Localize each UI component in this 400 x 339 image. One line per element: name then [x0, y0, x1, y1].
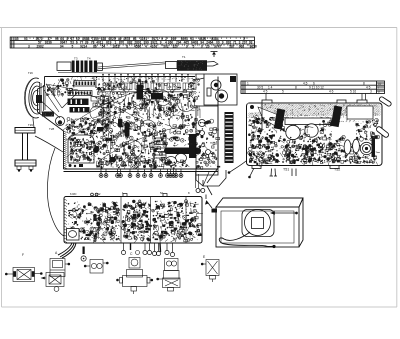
svg-text:T1: T1: [182, 55, 186, 59]
white wedge: [258, 107, 296, 136]
lower PCB top labels: [70, 191, 190, 196]
unit G: [84, 260, 108, 274]
lower PCB top edge bumps: [91, 193, 167, 196]
svg-text:0: 0: [201, 44, 203, 48]
svg-text:F: F: [22, 253, 24, 257]
lead with arrow: [206, 195, 212, 209]
svg-text:1: 1: [247, 82, 249, 86]
chassis components center: [108, 118, 170, 171]
dark pill 2: [125, 122, 130, 137]
inter-board wires: [196, 172, 210, 188]
lower PCB white pocket: [67, 229, 80, 241]
thick leads below PCB: [131, 244, 161, 253]
svg-text:8: 8: [363, 82, 365, 86]
svg-text:4 5: 4 5: [263, 90, 268, 94]
dark block pulley corner: [230, 76, 236, 82]
svg-text:3: 3: [370, 90, 372, 94]
svg-text:9214: 9214: [80, 44, 87, 48]
coil pack stripes A: [74, 81, 96, 87]
right side panel: [196, 106, 218, 183]
svg-text:9: 9: [222, 41, 224, 45]
lower PCB texture mid dense: [122, 200, 153, 244]
long wire loop arc: [47, 148, 64, 236]
speaker cabinet outline: [216, 198, 303, 247]
svg-text:4,5: 4,5: [303, 82, 308, 86]
pulley T28: [56, 117, 65, 126]
svg-text:1 4: 1 4: [268, 86, 273, 90]
bracket box left: [57, 62, 71, 70]
box corner dark: [212, 209, 218, 213]
IF transformer T3 body: [72, 61, 83, 73]
right PCB top tabs: [252, 100, 367, 169]
svg-text:3: 3: [28, 44, 30, 48]
dark bar right: [372, 138, 376, 157]
bracket box right: [97, 63, 102, 70]
dark cluster lower left: [69, 127, 116, 167]
svg-text:1B: 1B: [378, 82, 381, 86]
unit B: [157, 259, 180, 292]
chassis components upper area: [46, 78, 200, 120]
drum rim edges: [40, 82, 46, 114]
switch S5 dark: [274, 109, 285, 130]
sub board rounded: [67, 135, 96, 163]
speaker cone circle: [245, 210, 271, 236]
drive pulley box: [196, 74, 237, 105]
IF can ladder: [154, 138, 166, 158]
hanging pins below PCB: [270, 169, 278, 177]
circled terminal G: [81, 256, 86, 261]
tube socket circles: [90, 87, 195, 158]
unit F: [5, 268, 42, 282]
dark slab mid: [151, 93, 163, 100]
white label plate: [347, 106, 373, 119]
svg-text:9 11 10 12: 9 11 10 12: [309, 86, 324, 90]
dark cap 1: [93, 147, 99, 153]
lower PCB bottom wires: [58, 243, 76, 258]
drum lead down: [33, 118, 34, 128]
pointer mark T: [211, 52, 218, 58]
chassis top edge hatch: [71, 76, 195, 80]
speaker cable: [219, 232, 273, 247]
keyboard block dark 2: [70, 107, 90, 113]
right PCB hatch band: [248, 104, 381, 123]
svg-text:T28: T28: [49, 127, 55, 131]
svg-text:9747: 9747: [214, 44, 221, 48]
small rect row: [91, 97, 109, 108]
right PCB outline: [247, 103, 383, 166]
page edge bottom: [2, 306, 398, 308]
ferrite aerial rod (dark): [177, 60, 207, 71]
svg-text:4: 4: [145, 44, 147, 48]
svg-text:9236: 9236: [45, 41, 52, 45]
svg-text:93: 93: [24, 37, 28, 41]
svg-text:T52: T52: [334, 168, 340, 172]
lower PCB texture right: [152, 200, 203, 243]
lower PCB outline: [64, 197, 202, 244]
dial scale markings: [15, 37, 257, 48]
speaker frame: [242, 210, 274, 237]
long vertical lead: [261, 103, 263, 131]
scale-PCB links: [266, 94, 366, 101]
lower PCB left hatch: [64, 199, 67, 243]
pot circle 2: [305, 124, 318, 137]
page edge top: [0, 27, 397, 29]
pointer arrow: [271, 212, 298, 214]
svg-text:4 6: 4 6: [329, 90, 334, 94]
svg-text:T3: T3: [74, 57, 78, 61]
wiring bus: [100, 91, 196, 93]
vertical ladder: [103, 96, 110, 128]
drum lower hatch bar: [42, 112, 54, 117]
svg-text:85: 85: [15, 37, 19, 41]
wire chassis to bracket: [35, 136, 63, 152]
tuning drum shell arcs: [24, 78, 40, 118]
fuse pill right: [375, 96, 392, 138]
magnet square: [252, 218, 264, 229]
svg-text:870: 870: [119, 41, 125, 45]
svg-text:6: 6: [76, 41, 78, 45]
svg-text:T51: T51: [283, 168, 289, 172]
svg-text:8: 8: [295, 86, 297, 90]
electrolytic dark bar: [164, 148, 201, 155]
elco ovals: [344, 139, 373, 155]
main chassis outline: [38, 77, 219, 172]
svg-text:587: 587: [229, 44, 235, 48]
valve envelope 1: [176, 154, 187, 163]
drum hub: [36, 95, 42, 103]
PCB left leads: [228, 161, 296, 178]
chassis wires diagonals: [63, 88, 190, 160]
unit C: [117, 251, 153, 295]
chassis left edge hatch: [64, 131, 67, 169]
svg-text:5: 5: [193, 44, 195, 48]
antenna stub: [83, 247, 85, 255]
hatch cutout corner: [248, 104, 261, 113]
page edge right: [396, 28, 398, 308]
svg-text:5 16: 5 16: [350, 90, 356, 94]
dark pill 1: [118, 119, 123, 128]
corner screw: [250, 105, 254, 109]
flexible drive striped bar: [225, 112, 234, 163]
white bar: [285, 118, 331, 125]
trimmer leads row: [103, 74, 189, 82]
svg-text:5: 5: [72, 44, 74, 48]
svg-text:T26: T26: [28, 71, 33, 75]
svg-text:T4: T4: [87, 57, 91, 61]
dark vertical can: [189, 134, 196, 158]
svg-text:8: 8: [126, 44, 128, 48]
svg-text:5: 5: [282, 90, 284, 94]
chassis corner flange: [196, 170, 226, 195]
svg-text:068: 068: [239, 44, 245, 48]
unit A: [42, 259, 70, 292]
terminal circles below PCB: [121, 244, 174, 257]
valve envelope 2: [166, 157, 177, 166]
svg-text:8658: 8658: [250, 44, 257, 48]
svg-text:94: 94: [60, 44, 64, 48]
right scale numbers: [247, 82, 381, 94]
svg-text:9: 9: [160, 41, 162, 45]
svg-text:T29: T29: [28, 123, 33, 127]
page edge left: [1, 28, 3, 308]
lower PCB texture left: [68, 202, 122, 244]
right PCB texture: [248, 116, 380, 166]
coil pack stripes B: [68, 91, 92, 96]
dark slab vertical mid: [137, 85, 144, 100]
ferrite rod holder: [166, 62, 178, 69]
chassis components left dense: [66, 117, 112, 168]
dial cord funnel: [40, 84, 78, 118]
chassis components right: [99, 117, 221, 169]
coil comb row: [103, 83, 196, 90]
chassis front top edge: [58, 73, 196, 75]
dial scale strip: [10, 37, 254, 48]
switch S7 dark: [331, 106, 342, 128]
right scale strip: [241, 81, 385, 94]
keyboard block dark: [68, 99, 89, 106]
solder terminals row: [99, 169, 183, 177]
svg-text:6 RD: 6 RD: [70, 192, 76, 196]
svg-text:D: D: [378, 90, 380, 94]
speaker bracket: [15, 128, 36, 172]
unit E: [201, 260, 219, 283]
tuning rod: [98, 62, 165, 69]
cable connector: [272, 245, 275, 248]
svg-text:502: 502: [163, 44, 169, 48]
IF transformer T4 body: [84, 61, 97, 73]
svg-text:2982: 2982: [37, 44, 44, 48]
svg-text:9: 9: [186, 44, 188, 48]
pot circle 1: [286, 125, 300, 139]
svg-text:619: 619: [106, 41, 112, 45]
lower PCB dividers: [121, 197, 186, 244]
rod end link: [207, 62, 218, 67]
